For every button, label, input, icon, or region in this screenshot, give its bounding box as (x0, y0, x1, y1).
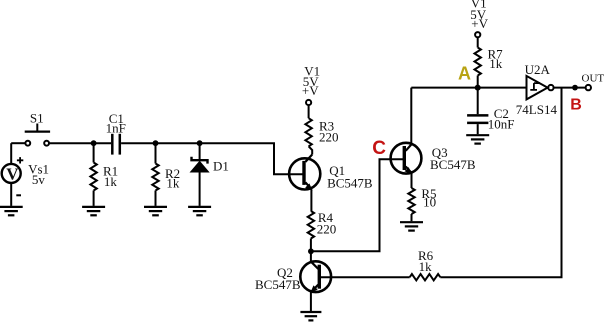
svg-text:BC547B: BC547B (327, 176, 373, 191)
wire (C1 to Q1 base) (121, 143, 302, 174)
svg-text:10nF: 10nF (488, 117, 515, 132)
wire (junction to Q2 collector) (310, 251, 312, 262)
capacitor C1 (106, 111, 126, 155)
resistor R3 (305, 118, 338, 146)
ground (Vs1) (0, 207, 23, 215)
ground (R1) (82, 207, 105, 215)
resistor R5 (408, 186, 436, 221)
node junction (R2 top) (153, 140, 159, 146)
wire (U2A output to OUT) (554, 87, 586, 89)
svg-text:1k: 1k (166, 175, 180, 190)
transistor Q3 (391, 143, 476, 175)
svg-text:BC547B: BC547B (430, 157, 476, 172)
wire (R6 to node B riser) (440, 88, 561, 278)
svg-text:220: 220 (317, 222, 337, 237)
svg-text:+V: +V (471, 16, 488, 31)
svg-text:S1: S1 (30, 110, 44, 125)
svg-text:C: C (372, 138, 386, 159)
node junction (R1 top) (91, 140, 97, 146)
op-amp U2A (Schmitt inverter 74LS14) (516, 62, 558, 117)
voltage source Vs1 (2, 143, 49, 206)
node B (570, 85, 582, 114)
svg-text:5v: 5v (32, 172, 46, 187)
svg-text:74LS14: 74LS14 (516, 102, 558, 117)
power +V V1 (middle) (302, 63, 320, 105)
capacitor C2 (467, 88, 514, 135)
svg-text:1k: 1k (419, 259, 433, 274)
wire (R3 to Q1 collector) (309, 146, 313, 154)
wire (V1 to R3) (308, 105, 310, 118)
node junction (R4/Q2/C) (308, 248, 314, 254)
ground (Q2) (300, 312, 321, 320)
resistor R4 (308, 210, 337, 238)
resistor R6 (410, 248, 441, 280)
svg-text:A: A (458, 64, 471, 84)
svg-text:1nF: 1nF (106, 120, 126, 135)
wire (Q3 emitter to R5) (411, 173, 413, 188)
zener diode D1 (191, 143, 229, 206)
svg-text:220: 220 (319, 129, 339, 144)
wire (Vs1 to S1) (11, 142, 25, 144)
svg-text:1k: 1k (489, 56, 503, 71)
node A (458, 64, 481, 91)
wire (S1 to C1) (49, 142, 111, 144)
resistor R2 (152, 143, 180, 206)
svg-text:OUT: OUT (582, 73, 605, 85)
wire (node A horizontal) (411, 87, 526, 89)
svg-text:B: B (570, 96, 582, 113)
wire (junction to node C / Q3 base) (311, 159, 403, 251)
svg-text:1k: 1k (104, 174, 118, 189)
terminal OUT (582, 73, 605, 91)
wire (R4 to junction) (310, 239, 312, 252)
node junction (D1 top) (197, 140, 203, 146)
ground (R5) (400, 222, 423, 230)
svg-text:10: 10 (423, 195, 436, 210)
wire (V1 to R7) (477, 37, 479, 47)
transistor Q2 (255, 261, 331, 292)
wire (Q2 base to R6) (321, 276, 410, 278)
wire (Q1 emitter to R4) (310, 189, 312, 211)
svg-text:+V: +V (302, 83, 319, 98)
svg-text:V: V (6, 165, 19, 184)
resistor R7 (475, 47, 504, 88)
resistor R1 (90, 143, 118, 206)
power +V V1 (right) (470, 0, 488, 37)
ground (R2) (144, 207, 167, 215)
transistor Q1 (289, 155, 373, 191)
wire (Q2 emitter to ground) (310, 291, 312, 311)
ground (D1) (188, 207, 211, 215)
svg-text:U2A: U2A (525, 62, 551, 77)
svg-text:BC547B: BC547B (255, 277, 301, 292)
ground (C2) (466, 135, 489, 143)
svg-text:D1: D1 (213, 158, 229, 173)
switch S1 (25, 110, 50, 145)
wire (Q3 collector riser) (410, 88, 412, 145)
